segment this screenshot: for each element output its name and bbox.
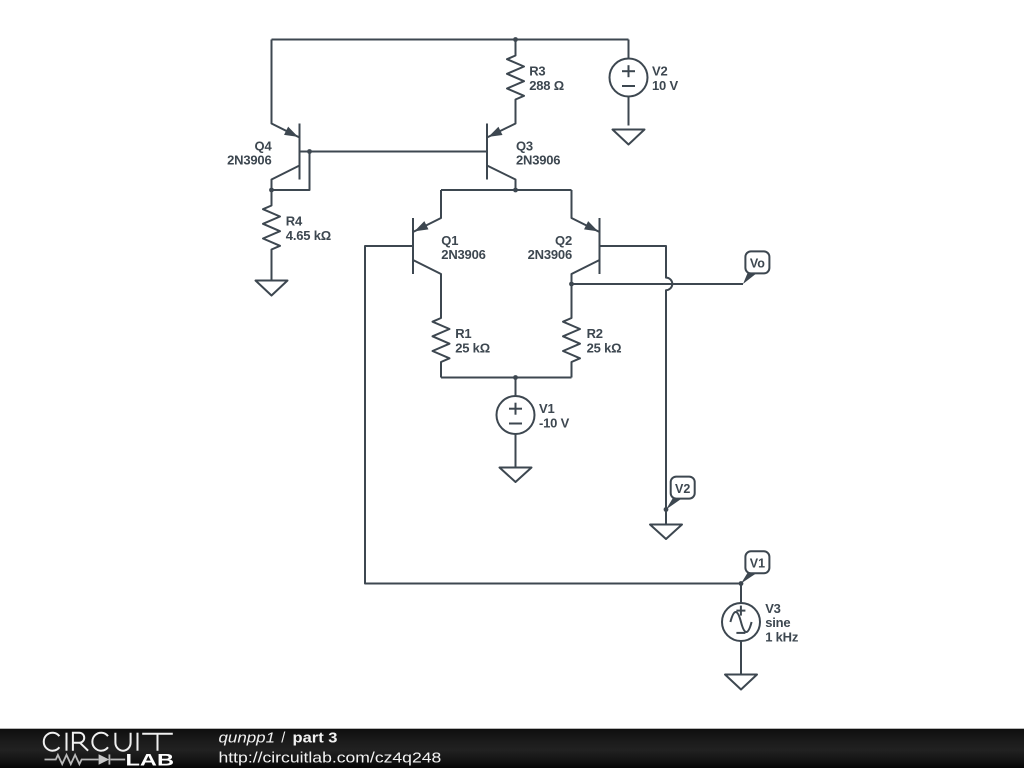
svg-text:Vo: Vo — [750, 257, 765, 271]
svg-text:V3: V3 — [765, 601, 781, 616]
svg-text:-10 V: -10 V — [539, 415, 570, 430]
svg-text:Q3: Q3 — [516, 139, 533, 154]
svg-text:R1: R1 — [455, 326, 471, 341]
svg-text:2N3906: 2N3906 — [516, 153, 560, 168]
svg-text:10 V: 10 V — [652, 78, 678, 93]
svg-text:2N3906: 2N3906 — [227, 153, 271, 168]
svg-text:R4: R4 — [286, 214, 303, 229]
svg-text:R2: R2 — [587, 326, 603, 341]
svg-text:V2: V2 — [652, 64, 668, 79]
svg-text:2N3906: 2N3906 — [528, 247, 572, 262]
svg-text:http://circuitlab.com/cz4q248: http://circuitlab.com/cz4q248 — [219, 750, 442, 767]
svg-text:288 Ω: 288 Ω — [529, 78, 564, 93]
svg-text:Q2: Q2 — [555, 233, 572, 248]
svg-text:V2: V2 — [675, 482, 690, 496]
svg-text:V1: V1 — [750, 557, 765, 571]
svg-text:LAB: LAB — [126, 750, 175, 768]
svg-text:part 3: part 3 — [293, 731, 338, 747]
svg-text:25 kΩ: 25 kΩ — [455, 340, 490, 355]
svg-text:Q1: Q1 — [441, 233, 458, 248]
svg-text:qunpp1: qunpp1 — [219, 731, 276, 747]
svg-text:2N3906: 2N3906 — [441, 247, 485, 262]
svg-text:R3: R3 — [529, 64, 545, 79]
svg-text:Q4: Q4 — [255, 139, 273, 154]
svg-text:sine: sine — [765, 615, 790, 630]
svg-text:V1: V1 — [539, 401, 555, 416]
svg-text:4.65 kΩ: 4.65 kΩ — [286, 228, 331, 243]
svg-text:25 kΩ: 25 kΩ — [587, 340, 622, 355]
svg-text:1 kHz: 1 kHz — [765, 630, 799, 645]
